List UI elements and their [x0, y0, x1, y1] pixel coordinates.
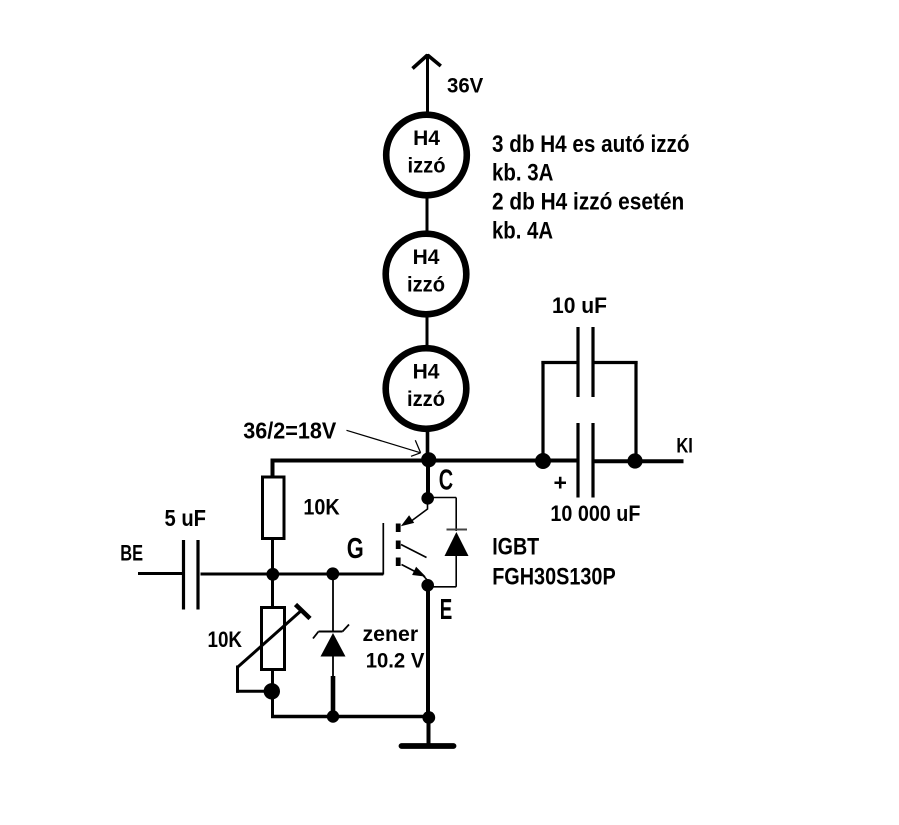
svg-text:10K: 10K: [303, 494, 339, 519]
wire lamp2-lamp3: [426, 316, 429, 346]
junction node collector: [421, 492, 434, 505]
junction node cap right: [627, 453, 642, 468]
svg-text:10K: 10K: [208, 627, 243, 652]
wire main rail right segment: [593, 459, 684, 463]
annotation arrow to node: [347, 430, 421, 456]
junction node emitter: [421, 579, 434, 592]
junction node lamps/main: [421, 452, 436, 467]
diode internal freewheel: [431, 498, 469, 587]
capacitor C3 5uF: [184, 540, 199, 610]
svg-text:kb. 3A: kb. 3A: [492, 160, 553, 187]
note text lamps: [492, 131, 690, 245]
svg-text:H4: H4: [413, 361, 440, 384]
lamp L3 H4: [386, 348, 467, 429]
wire corner down to R1: [271, 459, 275, 478]
junction node wiper: [264, 683, 280, 699]
junction node ground: [422, 711, 435, 724]
resistor R1 10K: [263, 477, 285, 539]
wire BE node to gate: [201, 573, 384, 576]
wire R1 bottom: [271, 539, 274, 576]
supply arrow 36V: [413, 54, 441, 112]
svg-text:10 000 uF: 10 000 uF: [550, 501, 640, 526]
wire R2 bottom to rail: [271, 670, 274, 719]
svg-text:2 db H4 izzó esetén: 2 db H4 izzó esetén: [492, 188, 684, 215]
svg-text:G: G: [347, 533, 364, 565]
svg-text:36V: 36V: [447, 75, 483, 98]
wire lamp3 to main node: [426, 430, 430, 461]
svg-text:10 uF: 10 uF: [552, 293, 607, 318]
svg-text:BE: BE: [120, 541, 143, 566]
zener D1: [313, 576, 349, 717]
wire emitter down: [426, 589, 430, 718]
capacitor C1 10uF: [541, 327, 637, 461]
svg-text:izzó: izzó: [408, 155, 446, 178]
ground: [402, 718, 454, 747]
junction node BE/R1/R2: [266, 568, 279, 581]
wire lamp1-lamp2: [426, 197, 429, 232]
svg-text:kb. 4A: kb. 4A: [492, 218, 553, 245]
wire gate lead: [333, 573, 383, 575]
svg-text:10.2 V: 10.2 V: [366, 649, 425, 672]
lamp L2 H4: [386, 234, 467, 315]
svg-text:H4: H4: [413, 246, 440, 269]
lamp L1 H4: [386, 115, 467, 196]
svg-text:izzó: izzó: [407, 274, 445, 297]
svg-text:FGH30S130P: FGH30S130P: [492, 563, 616, 590]
wire bottom rail: [271, 715, 429, 718]
wire wiper: [236, 666, 272, 693]
svg-text:5 uF: 5 uF: [165, 505, 207, 531]
svg-text:IGBT: IGBT: [492, 534, 539, 561]
svg-text:izzó: izzó: [407, 388, 445, 411]
potentiometer R2 10K: [238, 605, 311, 670]
capacitor C2 10000uF: [578, 423, 593, 498]
junction node zener bottom: [327, 710, 339, 722]
wire collector stub: [426, 460, 430, 493]
svg-text:C: C: [439, 465, 453, 497]
svg-text:36/2=18V: 36/2=18V: [243, 417, 337, 443]
wire BE input: [138, 572, 183, 575]
svg-text:KI: KI: [676, 434, 693, 457]
junction node cap left: [535, 453, 551, 469]
wire node to R2: [271, 575, 274, 609]
wire main rail left segment: [271, 459, 579, 463]
junction node zener top: [326, 567, 339, 580]
transistor Q1 IGBT: [383, 504, 427, 581]
svg-text:3 db H4 es autó izzó: 3 db H4 es autó izzó: [492, 131, 690, 158]
svg-text:H4: H4: [413, 127, 440, 150]
svg-text:E: E: [440, 594, 453, 626]
svg-text:zener: zener: [363, 623, 419, 646]
svg-text:+: +: [554, 470, 567, 496]
